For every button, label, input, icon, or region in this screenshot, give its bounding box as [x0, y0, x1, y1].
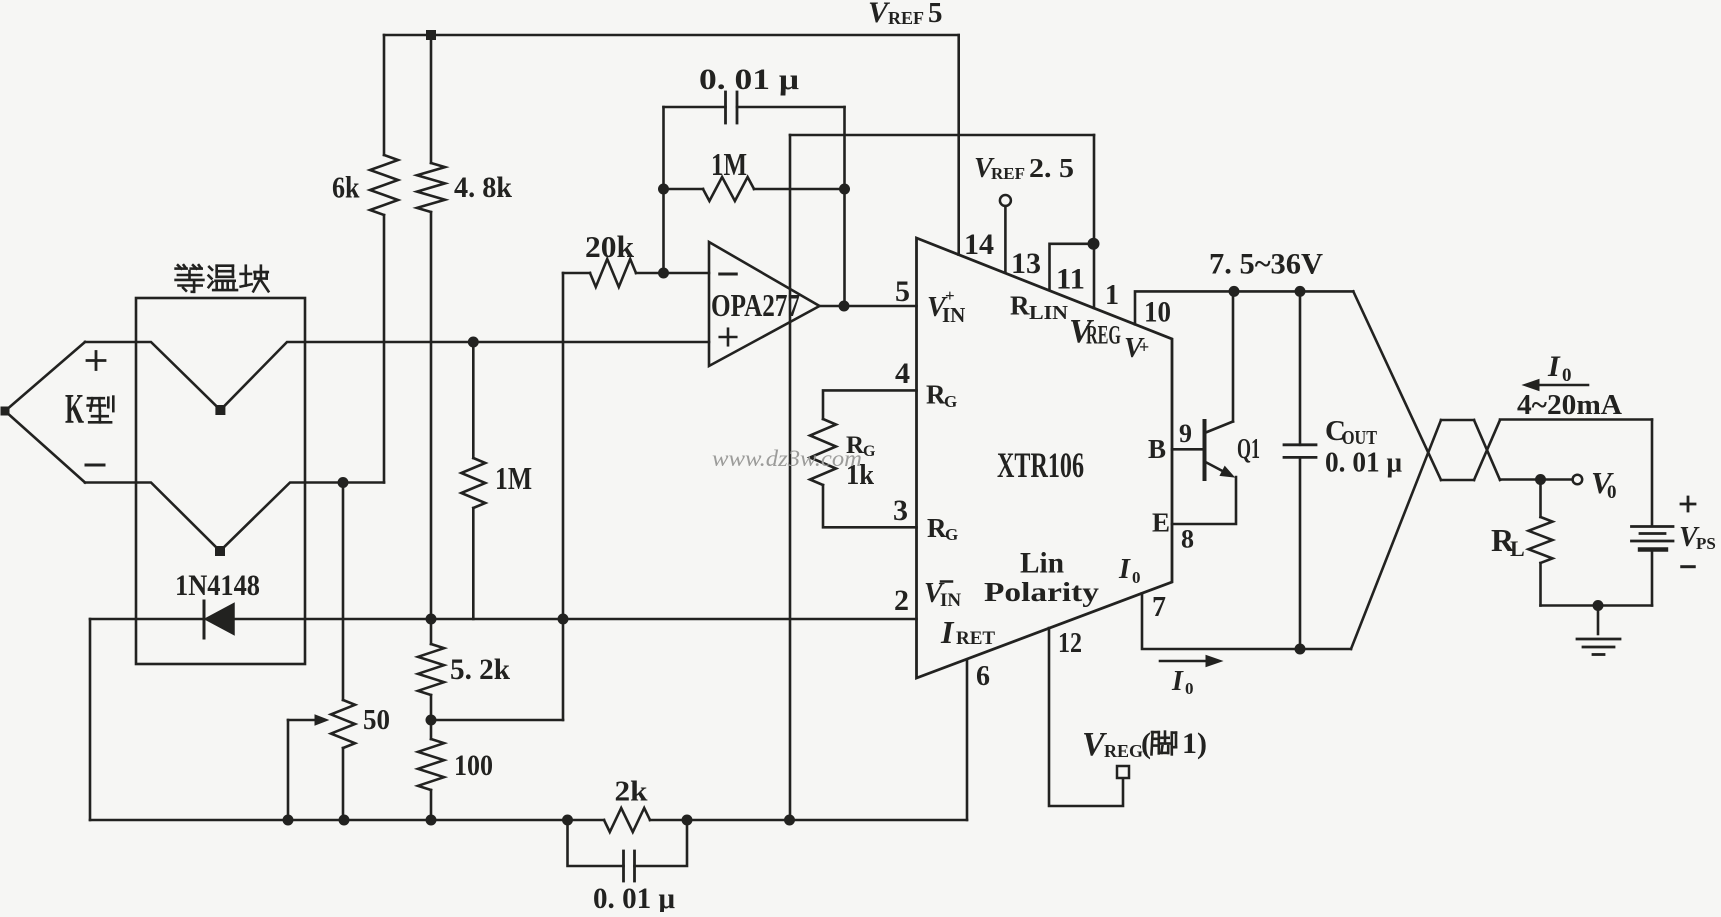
svg-text:R: R: [1010, 291, 1030, 321]
svg-text:0: 0: [1562, 365, 1572, 386]
svg-text:I: I: [1118, 554, 1131, 585]
svg-text:REF: REF: [991, 164, 1025, 183]
svg-text:(: (: [1141, 727, 1151, 760]
svg-text:E: E: [1152, 508, 1170, 538]
svg-text:I: I: [1171, 666, 1184, 697]
svg-text:14: 14: [964, 228, 994, 261]
svg-text:4: 4: [895, 357, 910, 390]
svg-text:5. 2k: 5. 2k: [450, 653, 510, 686]
svg-text:R: R: [927, 513, 947, 543]
svg-text:6k: 6k: [332, 170, 360, 205]
svg-text:4~20mA: 4~20mA: [1517, 390, 1623, 421]
svg-text:G: G: [863, 443, 876, 460]
svg-text:20k: 20k: [585, 229, 635, 264]
svg-text:12: 12: [1058, 628, 1082, 659]
svg-text:5: 5: [928, 0, 943, 29]
svg-text:1M: 1M: [711, 146, 747, 182]
svg-text:Q1: Q1: [1237, 433, 1260, 465]
svg-text:REG: REG: [1086, 321, 1121, 350]
svg-text:0: 0: [1185, 679, 1194, 698]
svg-text:3: 3: [893, 494, 908, 527]
svg-text:2k: 2k: [615, 776, 649, 808]
svg-text:K: K: [65, 387, 84, 433]
svg-text:IN: IN: [942, 303, 965, 327]
svg-text:I: I: [1547, 350, 1561, 383]
svg-text:R: R: [926, 380, 946, 410]
svg-text:PS: PS: [1696, 534, 1716, 553]
svg-text:B: B: [1148, 434, 1166, 464]
svg-text:G: G: [944, 392, 957, 411]
svg-text:I: I: [940, 614, 955, 650]
svg-text:1: 1: [1105, 280, 1119, 311]
svg-text:OPA277: OPA277: [711, 287, 800, 323]
svg-text:50: 50: [363, 705, 390, 736]
svg-text:G: G: [945, 525, 958, 544]
svg-text:13: 13: [1011, 247, 1041, 280]
svg-text:0. 01 μ: 0. 01 μ: [699, 63, 799, 96]
svg-text:Lin: Lin: [1020, 547, 1064, 580]
svg-text:8: 8: [1181, 525, 1194, 554]
svg-text:www.dz3w.com: www.dz3w.com: [712, 446, 862, 471]
svg-text:+: +: [1139, 337, 1149, 357]
svg-text:11: 11: [1056, 263, 1085, 296]
svg-text:+: +: [945, 286, 955, 305]
svg-text:6: 6: [976, 661, 990, 692]
svg-text:100: 100: [454, 749, 493, 782]
svg-text:Polarity: Polarity: [984, 577, 1100, 607]
svg-text:0: 0: [1132, 568, 1141, 587]
svg-text:2. 5: 2. 5: [1029, 153, 1074, 183]
svg-text:L: L: [1510, 536, 1525, 561]
svg-text:REF: REF: [888, 8, 924, 28]
svg-text:1): 1): [1182, 727, 1207, 760]
svg-text:1M: 1M: [495, 460, 532, 496]
svg-text:1N4148: 1N4148: [175, 569, 260, 602]
svg-text:XTR106: XTR106: [997, 445, 1084, 485]
svg-text:4. 8k: 4. 8k: [454, 171, 512, 204]
svg-text:7: 7: [1152, 592, 1166, 623]
svg-text:10: 10: [1144, 296, 1171, 329]
svg-text:0. 01 μ: 0. 01 μ: [1325, 447, 1403, 479]
svg-text:2: 2: [894, 584, 909, 617]
svg-text:0. 01 μ: 0. 01 μ: [593, 882, 675, 912]
svg-text:9: 9: [1179, 419, 1192, 448]
svg-text:5: 5: [895, 275, 910, 308]
svg-text:IN: IN: [940, 590, 961, 611]
svg-text:LIN: LIN: [1029, 302, 1069, 324]
svg-text:REG: REG: [1104, 741, 1143, 761]
svg-text:RET: RET: [956, 628, 995, 649]
svg-text:0: 0: [1607, 482, 1617, 503]
svg-text:7. 5~36V: 7. 5~36V: [1209, 248, 1323, 281]
